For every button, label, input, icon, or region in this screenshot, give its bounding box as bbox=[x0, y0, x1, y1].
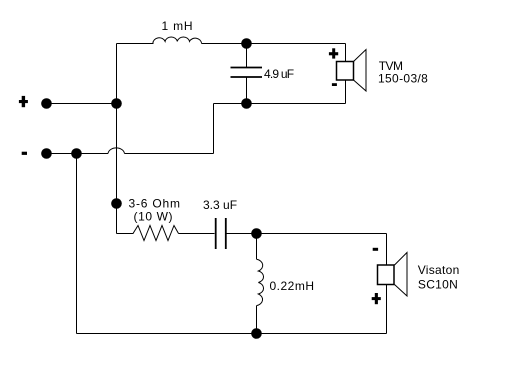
wire hop over vertical bbox=[108, 148, 125, 154]
wire top section bottom rail bbox=[214, 103, 346, 105]
node dot lower branch bbox=[111, 198, 122, 209]
inductor L2 0.22mH leads bbox=[256, 234, 258, 334]
wire tweeter vertical bbox=[345, 44, 347, 104]
minus sign woofer bbox=[373, 248, 378, 251]
speaker S1 cone bbox=[354, 50, 367, 92]
svg-text:3-6 Ohm: 3-6 Ohm bbox=[129, 197, 181, 211]
node dot plus junction bbox=[111, 98, 122, 109]
node dot coil bottom bbox=[251, 328, 262, 339]
capacitor C2 3.3 uF plates bbox=[216, 218, 226, 249]
svg-text:4.9 uF: 4.9 uF bbox=[264, 67, 294, 81]
node dot cap top bbox=[241, 38, 252, 49]
node dot plus terminal bbox=[41, 98, 52, 109]
plus sign input bbox=[19, 100, 28, 103]
node dot cap bottom bbox=[241, 98, 252, 109]
minus sign input bbox=[22, 152, 27, 155]
wire woofer vertical bbox=[386, 234, 388, 334]
svg-text:3.3 uF: 3.3 uF bbox=[203, 198, 237, 212]
node dot minus terminal bbox=[41, 148, 52, 159]
wire lower rail bbox=[117, 233, 387, 235]
node dot coil top bbox=[251, 228, 262, 239]
speaker S2 cone bbox=[395, 253, 408, 297]
wire vertical main node bbox=[116, 44, 118, 234]
inductor L2 0.22mH coil bbox=[257, 259, 264, 305]
svg-text:SC10N: SC10N bbox=[418, 278, 458, 292]
speaker S2 frame bbox=[378, 265, 395, 285]
node dot minus junction bbox=[71, 148, 82, 159]
resistor R1 3-6 Ohm bbox=[133, 226, 179, 241]
svg-text:Visaton: Visaton bbox=[418, 263, 460, 277]
capacitor C1 leads bbox=[246, 44, 248, 104]
capacitor C1 4.9 uF plates bbox=[231, 68, 263, 78]
wire left return vertical bbox=[76, 154, 78, 334]
svg-text:0.22mH: 0.22mH bbox=[270, 279, 315, 293]
plus sign tweeter bbox=[329, 52, 338, 55]
wire top rail bbox=[117, 43, 346, 45]
wire minus input with hop bbox=[47, 153, 214, 155]
svg-text:150-03/8: 150-03/8 bbox=[378, 72, 428, 86]
inductor L1 1 mH bbox=[153, 37, 202, 44]
speaker S1 frame bbox=[337, 62, 354, 81]
minus sign tweeter bbox=[332, 83, 337, 86]
plus sign woofer bbox=[372, 297, 381, 300]
svg-text:1 mH: 1 mH bbox=[162, 19, 194, 33]
wire plus input bbox=[47, 103, 117, 105]
wire bottom rail bbox=[77, 333, 387, 335]
svg-text:(10 W): (10 W) bbox=[134, 210, 174, 224]
wire mid vertical bbox=[213, 104, 215, 154]
